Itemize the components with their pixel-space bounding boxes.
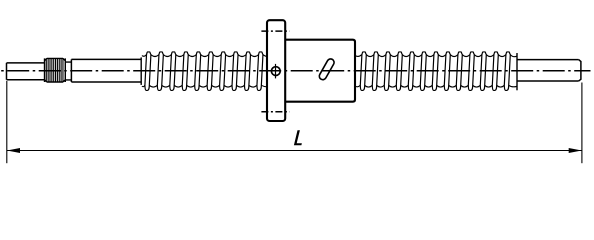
nut flange [267,20,285,121]
right extension line [581,83,583,164]
thread end edge [516,53,518,90]
thread runout edge [140,57,142,85]
screw thread right section [360,52,510,90]
right journal shaft end [517,60,581,81]
label L [294,130,302,145]
left journal shaft end [7,63,45,80]
ball return slot [318,58,335,81]
flange lubrication hole [271,67,280,76]
thread hatch lines [46,59,63,82]
left extension line [6,81,8,163]
lube hole vertical centerline [275,64,277,79]
right arrowhead [569,148,582,153]
flange bolt centerline top [261,30,289,32]
left arrowhead [7,148,20,153]
screw thread left section [145,52,263,90]
ball nut body [285,40,355,102]
shoulder shaft [71,59,141,82]
threaded end section [45,58,66,82]
dimension line L [7,150,582,152]
flange bolt centerline bottom [261,111,289,113]
relief neck groove [65,62,71,80]
centerline [1,70,591,72]
